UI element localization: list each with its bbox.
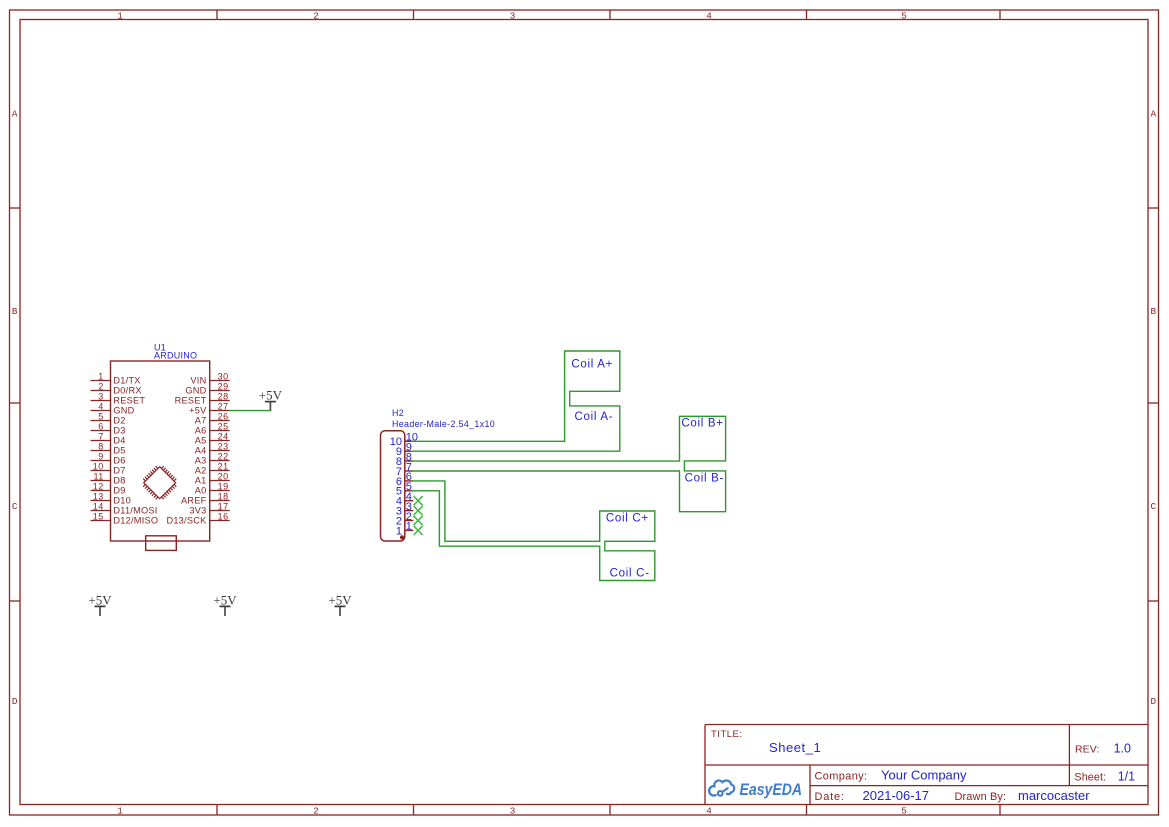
svg-text:25: 25	[218, 421, 229, 431]
svg-text:AREF: AREF	[181, 496, 207, 506]
svg-text:11: 11	[93, 471, 103, 481]
U1 pin 15 (D12/MISO)	[91, 520, 111, 522]
left ruler ticks	[10, 207, 21, 209]
top ruler ticks	[216, 10, 218, 20]
svg-text:4: 4	[98, 401, 104, 411]
svg-text:D5: D5	[113, 446, 125, 456]
svg-text:16: 16	[218, 511, 229, 521]
U1 pin 29 (GND)	[210, 390, 230, 392]
H2 pin 7	[405, 470, 414, 472]
svg-text:7: 7	[98, 431, 104, 441]
svg-text:Drawn By:: Drawn By:	[955, 791, 1007, 803]
H2 pin 6	[405, 480, 414, 482]
U1 pin 6 (D3)	[91, 430, 111, 432]
svg-text:9: 9	[98, 451, 104, 461]
U1 pin 16 (D13/SCK)	[210, 520, 230, 522]
svg-text:D7: D7	[113, 466, 125, 476]
svg-text:27: 27	[218, 401, 229, 411]
svg-text:2: 2	[98, 381, 104, 391]
no-connect flag on H2 pin 4	[414, 496, 423, 505]
svg-text:8: 8	[98, 441, 104, 451]
svg-text:10: 10	[93, 461, 104, 471]
svg-text:A6: A6	[195, 426, 207, 436]
svg-text:D4: D4	[113, 436, 125, 446]
svg-text:1: 1	[98, 371, 104, 381]
svg-text:+5V: +5V	[189, 406, 207, 416]
H2 pin 1	[405, 529, 414, 531]
U1 pin 4 (GND)	[91, 410, 111, 412]
svg-text:Sheet_1: Sheet_1	[769, 740, 821, 755]
svg-text:17: 17	[218, 501, 229, 511]
U1 pin 9 (D6)	[91, 460, 111, 462]
svg-text:C: C	[12, 501, 18, 512]
svg-text:4: 4	[706, 10, 712, 21]
svg-text:Coil C-: Coil C-	[610, 568, 650, 580]
svg-text:+5V: +5V	[259, 388, 283, 403]
svg-text:A3: A3	[195, 456, 207, 466]
no-connect flag on H2 pin 2	[414, 516, 423, 525]
svg-text:Sheet:: Sheet:	[1074, 772, 1106, 784]
svg-text:29: 29	[218, 381, 229, 391]
H2 pin 5	[405, 490, 414, 492]
U1 pin 1 (D1/TX)	[91, 380, 111, 382]
svg-text:GND: GND	[185, 386, 206, 396]
svg-text:30: 30	[218, 371, 229, 381]
svg-text:D12/MISO: D12/MISO	[113, 516, 158, 526]
svg-text:Header-Male-2.54_1x10: Header-Male-2.54_1x10	[392, 419, 495, 429]
U1 pin 19 (A0)	[210, 490, 230, 492]
svg-text:23: 23	[218, 441, 229, 451]
svg-text:D11/MOSI: D11/MOSI	[113, 506, 157, 516]
svg-text:TITLE:: TITLE:	[711, 729, 743, 740]
svg-text:12: 12	[93, 481, 104, 491]
U1 pin 13 (D10)	[91, 500, 111, 502]
svg-text:Your Company: Your Company	[881, 767, 967, 782]
svg-text:GND: GND	[113, 406, 134, 416]
svg-text:A: A	[12, 108, 18, 119]
IC U1 ARDUINO body	[111, 361, 210, 541]
svg-text:D8: D8	[113, 476, 125, 486]
H2 pin 10	[405, 440, 414, 442]
svg-text:B: B	[1151, 306, 1157, 317]
svg-text:18: 18	[218, 491, 229, 501]
svg-text:1: 1	[406, 521, 412, 533]
no-connect flag on H2 pin 1	[414, 526, 423, 535]
U1 chip diamond glyph	[143, 466, 176, 499]
svg-text:Coil C+: Coil C+	[606, 513, 649, 525]
U1 pin 23 (A4)	[210, 450, 230, 452]
svg-text:3V3: 3V3	[189, 506, 206, 516]
U1 pin 22 (A3)	[210, 460, 230, 462]
svg-text:3: 3	[510, 806, 516, 817]
U1 pin 30 (VIN)	[210, 380, 230, 382]
svg-text:B: B	[12, 306, 18, 317]
wire coil A loop (H2 pin10 to pin9)	[411, 351, 620, 451]
svg-text:20: 20	[218, 471, 229, 481]
svg-text:Coil B-: Coil B-	[685, 473, 724, 485]
svg-text:marcocaster: marcocaster	[1018, 788, 1090, 803]
U1 pin 20 (A1)	[210, 480, 230, 482]
svg-text:D: D	[12, 696, 18, 707]
U1 pin 12 (D9)	[91, 490, 111, 492]
svg-text:D6: D6	[113, 456, 125, 466]
U1 pin 10 (D7)	[91, 470, 111, 472]
wire U1 pin27 to +5V	[230, 410, 271, 412]
U1 pin 26 (A7)	[210, 420, 230, 422]
svg-text:+5V: +5V	[88, 592, 112, 607]
svg-text:A0: A0	[195, 486, 207, 496]
svg-text:D13/SCK: D13/SCK	[166, 516, 207, 526]
svg-text:2021-06-17: 2021-06-17	[863, 788, 930, 803]
U1 pin 21 (A2)	[210, 470, 230, 472]
svg-text:24: 24	[218, 431, 229, 441]
H2 pin 4	[405, 500, 414, 502]
right ruler ticks	[1148, 207, 1159, 209]
U1 pin 2 (D0/RX)	[91, 390, 111, 392]
svg-text:19: 19	[218, 481, 229, 491]
svg-text:D: D	[1151, 696, 1157, 707]
U1 pin 7 (D4)	[91, 440, 111, 442]
svg-text:+5V: +5V	[328, 592, 352, 607]
svg-text:A1: A1	[195, 476, 207, 486]
U1 pin 5 (D2)	[91, 420, 111, 422]
H2 pin 2	[405, 520, 414, 522]
svg-text:RESET: RESET	[175, 396, 207, 406]
svg-text:EasyEDA: EasyEDA	[740, 781, 803, 799]
U1 pin 24 (A5)	[210, 440, 230, 442]
svg-text:4: 4	[706, 806, 712, 817]
svg-text:ARDUINO: ARDUINO	[154, 350, 197, 360]
U1 pin 3 (RESET)	[91, 400, 111, 402]
title block outline	[705, 724, 1148, 726]
svg-text:D1/TX: D1/TX	[113, 376, 140, 386]
U1 pin 11 (D8)	[91, 480, 111, 482]
svg-text:D2: D2	[113, 416, 125, 426]
U1 pin 8 (D5)	[91, 450, 111, 452]
no-connect flag on H2 pin 3	[414, 506, 423, 515]
connector H2 body	[381, 431, 405, 541]
svg-text:A4: A4	[195, 446, 207, 456]
svg-text:H2: H2	[392, 408, 404, 418]
wire coil B loop (H2 pin8 to pin7)	[411, 416, 726, 511]
svg-text:5: 5	[901, 10, 907, 21]
svg-text:2: 2	[313, 806, 319, 817]
svg-text:5: 5	[98, 411, 104, 421]
svg-text:1/1: 1/1	[1118, 770, 1135, 784]
svg-text:Coil B+: Coil B+	[681, 418, 723, 430]
H2 pin 8	[405, 460, 414, 462]
svg-text:A7: A7	[195, 416, 207, 426]
U1 pin 14 (D11/MOSI)	[91, 510, 111, 512]
svg-text:3: 3	[98, 391, 104, 401]
svg-text:15: 15	[93, 511, 104, 521]
svg-text:22: 22	[218, 451, 229, 461]
svg-text:Date:: Date:	[815, 791, 845, 803]
svg-text:Coil A+: Coil A+	[571, 359, 613, 371]
svg-text:REV:: REV:	[1075, 744, 1100, 756]
svg-text:Coil A-: Coil A-	[575, 411, 614, 423]
svg-text:3: 3	[510, 10, 516, 21]
svg-text:A5: A5	[195, 436, 207, 446]
svg-text:Company:: Company:	[815, 770, 868, 782]
svg-text:1.0: 1.0	[1114, 742, 1131, 756]
svg-text:A: A	[1151, 108, 1157, 119]
svg-text:VIN: VIN	[190, 376, 206, 386]
svg-text:D9: D9	[113, 486, 125, 496]
U1 pin 17 (3V3)	[210, 510, 230, 512]
svg-text:13: 13	[93, 491, 104, 501]
svg-text:1: 1	[117, 10, 123, 21]
svg-text:1: 1	[117, 806, 123, 817]
H2 pin 3	[405, 510, 414, 512]
svg-text:1: 1	[396, 525, 402, 537]
bottom ruler ticks	[216, 805, 218, 816]
U1 pin 28 (RESET)	[210, 400, 230, 402]
svg-text:5: 5	[901, 806, 907, 817]
svg-text:6: 6	[98, 421, 104, 431]
svg-text:14: 14	[93, 501, 104, 511]
U1 pin 27 (+5V)	[210, 410, 230, 412]
svg-text:21: 21	[218, 461, 229, 471]
svg-text:D10: D10	[113, 496, 131, 506]
svg-text:28: 28	[218, 391, 229, 401]
svg-text:+5V: +5V	[213, 592, 237, 607]
H2 pin 1 polarity dot	[400, 535, 404, 539]
H2 pin 9	[405, 450, 414, 452]
wire coil C loop (H2 pin6 to pin5)	[411, 481, 655, 581]
svg-text:2: 2	[313, 10, 319, 21]
U1 pin 25 (A6)	[210, 430, 230, 432]
svg-text:C: C	[1151, 501, 1157, 512]
svg-text:RESET: RESET	[113, 396, 145, 406]
EasyEDA logo cloud icon	[709, 780, 734, 795]
U1 pin 18 (AREF)	[210, 500, 230, 502]
U1 bottom connector rectangle	[146, 536, 177, 551]
svg-text:D3: D3	[113, 426, 125, 436]
svg-text:A2: A2	[195, 466, 207, 476]
svg-text:D0/RX: D0/RX	[113, 386, 141, 396]
svg-text:26: 26	[218, 411, 229, 421]
